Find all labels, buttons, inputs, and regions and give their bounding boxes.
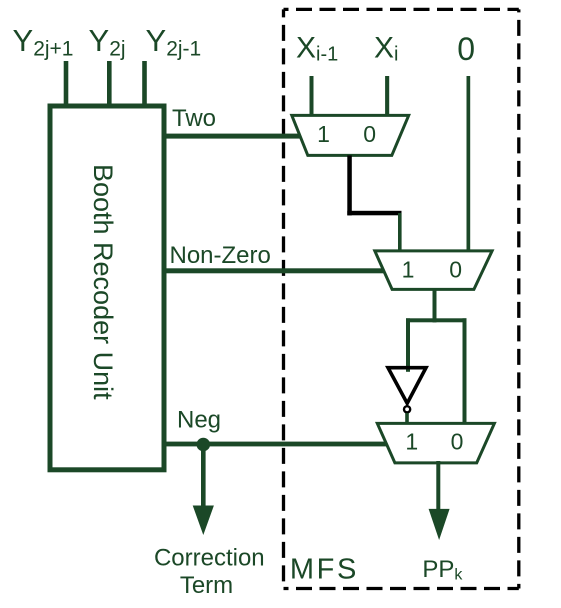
wire Xi to mux M1 — [385, 76, 389, 117]
wire mux M1 output (black jog down) — [347, 155, 352, 215]
inverter bubble — [404, 406, 410, 412]
arrowhead PPk — [429, 509, 450, 540]
wire mux M2 output — [433, 289, 437, 322]
dashed MFS boundary box (right edge) — [517, 9, 520, 588]
dashed MFS boundary box (bottom edge) — [284, 587, 519, 590]
node junction dot on Neg wire — [197, 438, 211, 452]
mux M3 trapezoid — [377, 423, 494, 463]
svg-text:Neg: Neg — [177, 407, 221, 434]
wire black jog horizontal — [347, 211, 401, 216]
wire left branch to inverter — [406, 318, 410, 372]
svg-text:0: 0 — [457, 31, 475, 67]
wire inverter to mux M3 input 1 — [405, 413, 409, 425]
wire Y2j-1 input stub — [142, 61, 147, 106]
wire right branch to mux M3 input 0 — [463, 318, 467, 425]
svg-text:Booth Recoder Unit: Booth Recoder Unit — [88, 164, 118, 400]
svg-text:1: 1 — [405, 429, 418, 455]
svg-text:1: 1 — [317, 121, 330, 147]
wire Y2j+1 input stub — [64, 61, 69, 106]
wire Correction Term arrow shaft — [201, 444, 206, 509]
wire Neg (box to mux M3 select) — [162, 442, 388, 447]
svg-text:Non-Zero: Non-Zero — [170, 242, 271, 269]
wire jog to mux M2 input 1 — [398, 213, 402, 252]
svg-text:Two: Two — [172, 105, 216, 132]
mux M1 trapezoid — [292, 115, 409, 155]
svg-text:0: 0 — [449, 257, 462, 283]
wire 0 to mux M2 — [467, 76, 471, 252]
wire split horizontal — [406, 318, 467, 322]
wire Non-Zero (box to mux M2 select) — [162, 268, 386, 273]
wire PPk arrow shaft — [436, 461, 440, 511]
inverter (NOT gate) — [388, 368, 426, 404]
arrowhead Correction Term — [193, 506, 214, 536]
svg-text:Correction: Correction — [154, 544, 265, 571]
svg-text:Term: Term — [180, 572, 233, 599]
dashed MFS boundary box (left edge) — [282, 9, 285, 588]
wire Xi-1 to mux M1 — [310, 76, 314, 117]
Booth Recoder Unit box — [50, 106, 164, 470]
mux M2 trapezoid — [375, 251, 492, 290]
svg-text:0: 0 — [451, 429, 464, 455]
svg-text:1: 1 — [402, 257, 415, 283]
svg-text:MFS: MFS — [290, 554, 359, 586]
wire Two (box to mux M1 select) — [162, 134, 302, 139]
dashed MFS boundary box (top edge) — [284, 8, 519, 11]
wire Y2j input stub — [107, 61, 112, 106]
svg-text:0: 0 — [363, 121, 376, 147]
